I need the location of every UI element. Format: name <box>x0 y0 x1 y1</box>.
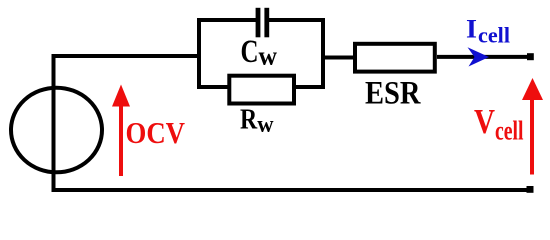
wire: bottom rail right of Rw <box>292 85 325 89</box>
wire: top rail right of capacitor <box>269 18 325 22</box>
node: negative terminal square <box>527 186 534 193</box>
svg-text:C: C <box>241 34 259 70</box>
label Cw <box>241 34 278 70</box>
node: parallel block right edge <box>321 18 325 89</box>
svg-text:ESR: ESR <box>365 75 422 111</box>
OCV arrow (red) <box>112 85 130 177</box>
svg-text:R: R <box>240 104 258 136</box>
voltage arrow V_cell (red) <box>522 78 543 175</box>
label V_cell <box>474 102 524 145</box>
label Rw <box>240 104 274 139</box>
label I_cell <box>466 13 510 47</box>
resistor Rw (box) <box>229 76 294 104</box>
svg-text:w: w <box>259 41 278 70</box>
svg-text:cell: cell <box>478 22 510 47</box>
svg-text:I: I <box>466 13 477 43</box>
node: positive terminal square <box>527 53 534 60</box>
svg-text:w: w <box>257 112 274 138</box>
wire: ESR to positive terminal <box>437 55 530 59</box>
svg-text:V: V <box>474 102 495 141</box>
svg-text:OCV: OCV <box>126 115 186 150</box>
current arrow I_cell (blue stealth head) <box>468 47 490 66</box>
wire: bottom rail left of Rw <box>197 85 231 89</box>
wire: top rail left of capacitor <box>197 18 256 22</box>
wire: bottom run from source to right terminal <box>54 188 529 192</box>
wire: top-left run from source up and right to parallel block <box>54 56 200 192</box>
wire: parallel block to ESR <box>325 56 357 60</box>
resistor ESR (box) <box>355 44 435 72</box>
svg-text:cell: cell <box>495 115 524 145</box>
node: parallel block left edge <box>197 18 201 89</box>
voltage source OCV (circle) <box>11 88 102 173</box>
capacitor Cw (plates) <box>256 8 270 38</box>
